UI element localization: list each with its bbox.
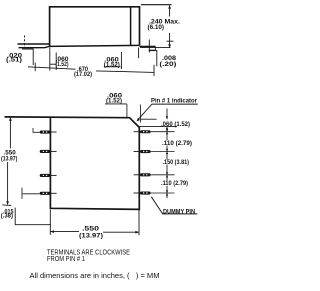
pin 1 indicator leader bbox=[138, 104, 152, 120]
body right edge extension line bbox=[138, 48, 140, 59]
svg-text:.150 (3.81): .150 (3.81) bbox=[163, 159, 190, 166]
svg-text:(.20): (.20) bbox=[159, 61, 176, 68]
svg-text:(6.10): (6.10) bbox=[148, 24, 165, 31]
right pin 3 pad bbox=[140, 173, 151, 176]
left pin 1 extension line bbox=[33, 131, 40, 133]
chamfer dimension arrow up bbox=[166, 127, 168, 130]
side view body bottom edge bbox=[50, 45, 140, 46]
svg-text:(13.97): (13.97) bbox=[79, 232, 103, 239]
left pin 3 pad bbox=[40, 174, 51, 177]
bottom .550 right arrow bbox=[135, 231, 138, 234]
bottom .550 extension line left bbox=[49, 210, 51, 235]
right pin 1 lead stub bbox=[134, 131, 140, 133]
pin row 1 dimension arrows bbox=[166, 129, 168, 134]
dimension .550 left bottom arrow bbox=[6, 201, 9, 204]
left pin 3 lead stub bbox=[50, 174, 56, 176]
side view case end cap line bbox=[130, 7, 132, 46]
dimension .240 arrow tail tick bbox=[167, 40, 174, 42]
bottom .550 extension line right bbox=[138, 210, 140, 235]
right pin 4 (dummy pin) pad bbox=[140, 192, 151, 195]
svg-text:.060 (1.52): .060 (1.52) bbox=[161, 121, 190, 128]
left pin 2 lead stub bbox=[50, 150, 56, 152]
dimension .670 line left segment bbox=[28, 67, 76, 69]
left pin 4 extension line bbox=[23, 193, 40, 195]
right pin 4 lead stub bbox=[134, 192, 140, 194]
dimension .240 line lower bbox=[169, 33, 171, 47]
svg-text:(17.02): (17.02) bbox=[74, 71, 92, 78]
right pin 2 lead stub bbox=[134, 151, 140, 153]
dimension .020 leader bracket bbox=[22, 49, 33, 65]
dimension .008 leader bracket bbox=[154, 51, 157, 67]
svg-text:(.38): (.38) bbox=[1, 213, 13, 220]
right pin 3 lead stub bbox=[134, 174, 140, 176]
right pin 3 extension line bbox=[151, 174, 175, 176]
pin row 4 dimension arrows bbox=[166, 190, 168, 195]
bottom .550 dimension line right segment bbox=[103, 231, 139, 233]
svg-text:(1.52): (1.52) bbox=[106, 97, 122, 104]
dimension .240 line upper bbox=[169, 5, 171, 16]
right lead tip bbox=[154, 46, 156, 50]
chamfer extension line upper bbox=[141, 118, 157, 120]
left pin 1 lead stub bbox=[50, 131, 56, 133]
left pin 4 pad bbox=[40, 192, 51, 195]
svg-text:(1.52): (1.52) bbox=[104, 61, 120, 68]
svg-text:FROM PIN # 1: FROM PIN # 1 bbox=[47, 254, 85, 263]
left lead bottom line bbox=[19, 46, 50, 47]
right lead extension vertical bbox=[148, 40, 150, 53]
right pin 4 extension line bbox=[151, 192, 175, 194]
svg-text:All dimensions are in inches,: All dimensions are in inches, ( ) = MM bbox=[30, 271, 160, 280]
dimension .550 left vertical lower bbox=[7, 162, 9, 205]
dummy pin leader bbox=[151, 197, 197, 214]
left .060 extension line (body edge) bbox=[49, 48, 51, 71]
right pin 1 extension line bbox=[151, 131, 175, 133]
bottom .550 dimension line left segment bbox=[50, 231, 79, 233]
right lead bottom line bbox=[149, 49, 156, 51]
top .060 extension line left bbox=[126, 104, 128, 117]
left lead top line bbox=[18, 43, 50, 45]
pin row 2 dimension arrows bbox=[166, 149, 168, 154]
chamfer dimension arrow down bbox=[166, 116, 168, 119]
svg-text:DUMMY PIN: DUMMY PIN bbox=[163, 208, 195, 215]
dimension .670 left tick bbox=[34, 63, 36, 72]
dimension .550 left bottom extension tick bbox=[2, 204, 11, 207]
dimension .670 line right segment bbox=[96, 71, 154, 73]
dimension .550 left top arrow bbox=[9, 117, 12, 120]
left .060 extension line (lead) bbox=[55, 53, 57, 71]
dimension .015 leader bbox=[15, 208, 51, 225]
side view body outline bbox=[50, 7, 140, 47]
dimension .670 right tick bbox=[153, 65, 155, 76]
right pin 2 pad bbox=[140, 150, 151, 153]
seating plane line bbox=[140, 47, 171, 49]
svg-text:(.51): (.51) bbox=[6, 56, 22, 63]
dimension .240 top arrow bbox=[168, 5, 171, 8]
svg-text:Pin # 1 indicator: Pin # 1 indicator bbox=[151, 98, 197, 105]
right .060 extension line bbox=[120, 52, 122, 64]
right dimension vertical segment 2 bbox=[166, 127, 168, 141]
svg-text:(13.97): (13.97) bbox=[1, 155, 17, 162]
svg-text:.550: .550 bbox=[82, 225, 100, 232]
right dimension vertical segment 4 bbox=[166, 165, 168, 182]
dimension .240 bottom arrow bbox=[168, 44, 171, 47]
right dimension vertical top segment bbox=[166, 109, 168, 120]
right .060 dimension underline bbox=[104, 66, 121, 68]
top .060 extension line right bbox=[140, 105, 142, 123]
dimension .020 extension dashed line bbox=[24, 35, 26, 47]
dimension .015 cross tick bbox=[21, 188, 23, 199]
top .060 dimension underline bbox=[105, 103, 127, 105]
dimension .550 left vertical upper bbox=[9, 118, 11, 149]
right dimension vertical segment 3 bbox=[166, 146, 168, 160]
left pin 1 pad bbox=[40, 131, 51, 134]
left pin 4 lead stub bbox=[50, 192, 56, 194]
left pin 2 pad bbox=[40, 150, 51, 153]
bottom view outline with pin 1 chamfer bbox=[5, 117, 140, 209]
pin row 3 dimension arrows bbox=[166, 172, 168, 177]
right pin 1 pad bbox=[140, 130, 151, 133]
chamfer extension line lower bbox=[140, 126, 178, 128]
right pin 2 extension line bbox=[151, 151, 175, 153]
bottom .550 left arrow bbox=[51, 230, 54, 233]
pin 1 indicator underline bbox=[152, 103, 198, 105]
left pin 1 extension tick bbox=[32, 128, 34, 132]
svg-text:.110 (2.79): .110 (2.79) bbox=[161, 180, 188, 187]
dimension .240 top extension line bbox=[141, 4, 172, 6]
pin 1 indicator leader arrowhead bbox=[137, 118, 140, 122]
svg-text:.110 (2.79): .110 (2.79) bbox=[162, 140, 192, 147]
right dimension vertical segment 5 bbox=[166, 186, 168, 199]
svg-text:(1.52): (1.52) bbox=[56, 61, 69, 68]
right lead top line bbox=[140, 45, 156, 47]
right .060 tick bbox=[120, 64, 122, 70]
left .060 dimension line bbox=[50, 63, 56, 65]
